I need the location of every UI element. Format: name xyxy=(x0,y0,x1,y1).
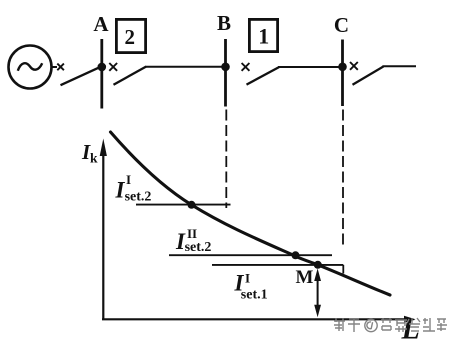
dot intersection Iset.2-I on curve xyxy=(188,201,196,209)
switch blade B-C xyxy=(247,67,280,85)
svg-text:B: B xyxy=(217,11,231,35)
current curve Ik(l) xyxy=(111,132,391,295)
bus A xyxy=(100,39,103,109)
svg-text:1: 1 xyxy=(258,23,269,48)
svg-text:C: C xyxy=(334,13,349,37)
wire B-C xyxy=(278,66,340,68)
projection dashed line from C xyxy=(342,110,344,248)
dot intersection Iset.2-II on curve xyxy=(292,251,300,259)
svg-text:M: M xyxy=(296,267,314,288)
projection dashed line from B xyxy=(225,110,227,209)
svg-text:I: I xyxy=(245,271,250,286)
x-axis l xyxy=(102,316,416,323)
setting line Iset.1-I xyxy=(212,265,343,274)
bus C xyxy=(341,40,344,107)
dot intersection point M on curve xyxy=(314,261,322,269)
svg-text:I: I xyxy=(126,172,131,187)
breaker cross QF3 xyxy=(242,63,250,71)
svg-text:set.2: set.2 xyxy=(125,189,152,204)
node B junction dot xyxy=(221,63,230,72)
wire gen stub xyxy=(52,66,58,68)
breaker cross QF4 xyxy=(350,62,358,70)
protection box 1 xyxy=(249,19,277,51)
node A junction dot xyxy=(98,63,107,72)
svg-text:A: A xyxy=(93,12,109,36)
y-axis Ik xyxy=(100,139,107,320)
switch blade gen-A xyxy=(61,67,100,85)
breaker cross QF2 xyxy=(109,63,117,71)
watermark zhihu xyxy=(334,318,447,332)
label Iset.1-I xyxy=(234,271,268,303)
wire C right feeder xyxy=(383,65,417,67)
wire A-B xyxy=(145,66,223,68)
protection box 2 xyxy=(116,19,145,52)
label Iset.2-II xyxy=(175,226,211,255)
bus B xyxy=(224,39,227,107)
generator G xyxy=(9,46,52,89)
switch blade C-right xyxy=(353,66,384,84)
label Iset.2-I xyxy=(115,172,152,204)
svg-text:II: II xyxy=(187,226,197,241)
setting line Iset.2-II xyxy=(169,254,332,256)
breaker cross QF1 xyxy=(57,64,64,71)
svg-text:set.1: set.1 xyxy=(241,287,268,302)
svg-text:2: 2 xyxy=(125,25,136,49)
axis label l (distance) xyxy=(401,313,420,346)
switch blade A-B xyxy=(114,67,147,85)
node C junction dot xyxy=(338,63,347,72)
svg-text:k: k xyxy=(90,151,98,166)
axis label Ik xyxy=(81,140,98,166)
setting line Iset.2-I xyxy=(136,204,231,206)
svg-text:set.2: set.2 xyxy=(185,240,212,255)
measure arrow at M xyxy=(314,269,321,318)
